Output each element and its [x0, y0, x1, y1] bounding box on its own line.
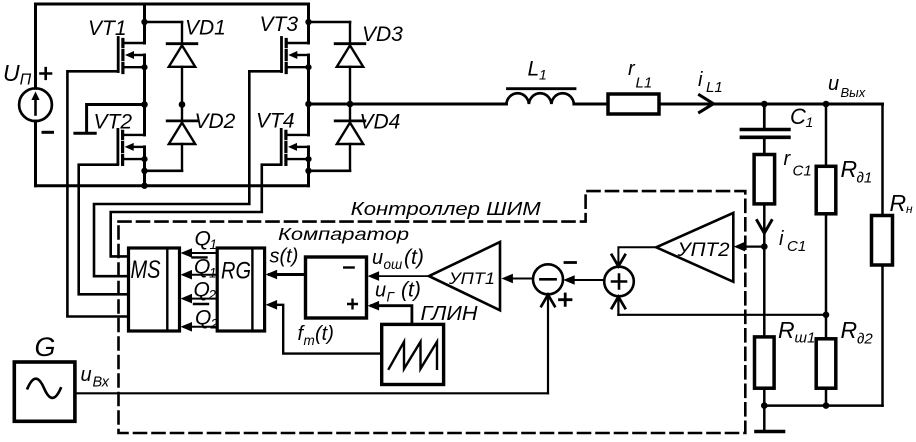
wire feedback tap — [618, 314, 826, 316]
svg-text:MS: MS — [131, 256, 161, 284]
wire UPT2 output — [612, 247, 657, 266]
svg-text:VD3: VD3 — [362, 23, 403, 46]
svg-text:u: u — [372, 247, 383, 269]
junction midpoint left — [141, 101, 148, 108]
adder node — [604, 267, 634, 297]
inductor L1 — [506, 89, 575, 104]
junction Rd2 bottom — [823, 402, 830, 409]
svg-text:VT2: VT2 — [94, 111, 133, 134]
signal Q2 arrow — [181, 294, 218, 304]
signal Q1 arrow — [181, 248, 218, 258]
current arrow iC1 — [757, 221, 772, 234]
svg-text:i: i — [698, 69, 703, 91]
signal s(t) — [266, 270, 306, 280]
block RG — [217, 248, 264, 331]
svg-text:Q: Q — [195, 228, 211, 251]
svg-text:u: u — [375, 280, 386, 302]
svg-text:∂1: ∂1 — [857, 170, 873, 187]
resistor rC1 — [754, 155, 775, 204]
svg-text:u: u — [81, 364, 92, 386]
resistor Rd1 — [816, 104, 836, 339]
svg-text:RG: RG — [221, 258, 251, 285]
wire rC1 down — [763, 204, 766, 247]
junction VT2 rail — [141, 183, 147, 189]
resistor Rd2 — [816, 339, 836, 406]
svg-text:u: u — [828, 73, 839, 95]
svg-text:s(t): s(t) — [270, 246, 299, 268]
wire uvx rise — [541, 295, 554, 394]
svg-text:Контроллер ШИМ: Контроллер ШИМ — [351, 199, 541, 219]
wire output line — [309, 103, 507, 106]
transistor VT2 — [118, 129, 148, 164]
svg-text:VD1: VD1 — [185, 17, 226, 40]
wire VD4 bottom link — [309, 170, 351, 173]
svg-text:∂2: ∂2 — [857, 331, 873, 348]
wire VT4 drain column — [307, 104, 310, 135]
svg-text:L1: L1 — [636, 75, 653, 92]
svg-text:1: 1 — [806, 114, 814, 130]
signal uosh — [368, 271, 429, 281]
junction VT3-VD3 branch — [305, 19, 311, 25]
label minus — [43, 131, 53, 134]
svg-text:Компаратор: Компаратор — [278, 224, 409, 244]
svg-text:УПТ1: УПТ1 — [448, 270, 495, 288]
resistor Rn — [872, 104, 893, 406]
junction ground node — [761, 402, 768, 409]
label uosh(t) — [372, 246, 424, 272]
svg-text:т: т — [304, 333, 315, 348]
block comparator — [306, 257, 367, 318]
wire VT3 drain column — [307, 4, 310, 43]
svg-text:R: R — [778, 317, 795, 343]
svg-text:C: C — [790, 104, 806, 129]
wire VT3 gate drive — [94, 71, 282, 276]
svg-text:VD2: VD2 — [195, 110, 236, 133]
label uG(t) — [375, 279, 421, 305]
junction midpoint right — [305, 101, 312, 108]
junction feedback tap — [823, 312, 830, 319]
wire UPT1 input — [501, 274, 533, 284]
wire VT1 drain column — [143, 4, 146, 43]
resistor Rsh1 — [755, 337, 775, 388]
wire VT4 source column — [307, 147, 310, 186]
transistor VT4 — [281, 129, 311, 164]
junction VD2 bottom — [141, 168, 147, 174]
subtractor node — [533, 264, 563, 294]
wire bottom return — [764, 404, 882, 407]
wire VT1 source column — [143, 55, 146, 105]
wire adder to subtractor — [563, 275, 604, 285]
transistor VT3 — [282, 38, 312, 73]
wire rL1 to output node — [659, 103, 883, 106]
label Q2-bar — [194, 304, 219, 332]
svg-text:2: 2 — [210, 317, 219, 332]
svg-text:R: R — [890, 190, 907, 216]
label f(t) — [298, 323, 334, 348]
svg-text:R: R — [841, 156, 858, 182]
wire midline left — [87, 105, 145, 132]
svg-text:VD4: VD4 — [360, 111, 401, 134]
amplifier UPT2 — [656, 213, 733, 282]
diode VD2 — [167, 105, 197, 171]
diode VD3 — [335, 22, 365, 104]
svg-text:Вх: Вх — [93, 375, 110, 391]
diode VD1 — [167, 22, 197, 105]
source UP (current source circle) — [19, 88, 52, 121]
svg-text:C1: C1 — [793, 163, 812, 180]
diode VD4 — [335, 104, 365, 171]
wire VD2 bottom link — [145, 170, 183, 173]
wire L1 to rL1 — [574, 103, 608, 106]
wire feedback rise — [612, 297, 625, 315]
wire left rail lower — [34, 121, 37, 186]
capacitor C1 — [741, 104, 789, 155]
svg-text:L: L — [528, 58, 540, 81]
junction VD1-VD2 midline — [179, 101, 186, 108]
wire bottom rail — [36, 184, 309, 187]
svg-text:VT4: VT4 — [256, 110, 295, 133]
label Q1-bar — [193, 256, 217, 281]
ground — [756, 406, 784, 432]
svg-text:R: R — [841, 317, 858, 343]
signal Q2-bar arrow — [181, 322, 218, 332]
wire left rail upper — [34, 4, 37, 88]
svg-text:УПТ2: УПТ2 — [676, 240, 730, 261]
junction VD3-VD4 output — [347, 101, 354, 108]
svg-text:ш1: ш1 — [795, 330, 816, 347]
transistor VT1 — [118, 38, 147, 73]
block MS — [129, 248, 180, 331]
wire VD1 branch — [145, 21, 183, 24]
wire VT2 drain column — [143, 105, 146, 135]
svg-text:1: 1 — [210, 237, 218, 252]
common terminal bar — [75, 132, 95, 135]
wire VT2 source column — [143, 147, 146, 186]
resistor rL1 — [608, 94, 659, 114]
wire shunt column — [763, 247, 766, 337]
wire VT3 source column — [307, 55, 310, 104]
label minus at subtractor — [565, 261, 576, 264]
wire Rsh1 to bottom — [763, 388, 766, 405]
svg-text:Q: Q — [194, 256, 210, 279]
junction VD4 bottom — [305, 168, 311, 174]
svg-text:ГЛИН: ГЛИН — [421, 303, 479, 325]
svg-text:L1: L1 — [706, 79, 723, 96]
svg-text:VT3: VT3 — [260, 13, 299, 36]
svg-text:(t): (t) — [315, 323, 334, 345]
label plus — [41, 68, 52, 79]
node uVyh junction — [823, 101, 830, 108]
signal uG — [368, 301, 412, 325]
wire top rail — [36, 3, 309, 6]
svg-text:(t): (t) — [404, 246, 424, 269]
wire VT1 gate drive — [67, 71, 128, 316]
svg-text:2: 2 — [208, 288, 217, 303]
signal f clock — [266, 300, 382, 354]
junction iC1 node — [761, 243, 768, 250]
wire VD3 branch — [309, 21, 351, 24]
svg-text:Q: Q — [195, 307, 211, 330]
wire VT4 gate drive — [111, 165, 282, 257]
node C1 junction — [761, 101, 768, 108]
svg-text:н: н — [906, 202, 913, 216]
wire VT2 gate drive — [79, 165, 129, 295]
svg-text:C1: C1 — [787, 238, 806, 255]
block GLIN — [382, 324, 444, 384]
svg-text:ош: ош — [384, 257, 403, 272]
current arrow iL1 — [700, 95, 714, 112]
svg-text:1: 1 — [539, 67, 547, 83]
label plus at subtractor — [560, 294, 572, 305]
svg-text:1: 1 — [209, 266, 217, 281]
signal Q1-bar arrow — [181, 270, 218, 280]
amplifier UPT1 — [429, 242, 500, 310]
generator G — [14, 362, 75, 421]
junction VT1-VD1 branch — [141, 19, 147, 25]
wire uvx — [75, 392, 548, 394]
svg-text:VT1: VT1 — [88, 17, 127, 40]
svg-text:(t): (t) — [401, 279, 421, 302]
svg-text:G: G — [35, 332, 56, 362]
svg-text:i: i — [779, 228, 784, 250]
wire iC1 to UPT2 — [738, 246, 765, 248]
svg-text:Q: Q — [194, 279, 210, 302]
svg-text:Вых: Вых — [841, 85, 866, 100]
dashed controller boundary — [119, 191, 746, 433]
